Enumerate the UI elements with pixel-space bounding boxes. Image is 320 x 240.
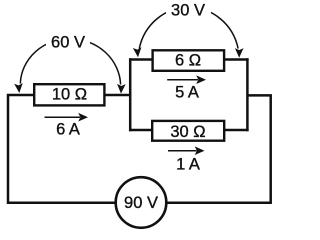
svg-text:6 Ω: 6 Ω bbox=[175, 52, 201, 70]
wire: bottom branch left segment bbox=[129, 129, 152, 132]
resistor R2 6 ohm bbox=[153, 50, 225, 71]
wire: bottom right segment + right vertical + tap to right bus bbox=[167, 95, 271, 202]
svg-text:5 A: 5 A bbox=[175, 84, 199, 102]
wire: top branch left segment bbox=[129, 58, 152, 61]
arrowhead 30V right bbox=[235, 48, 244, 58]
wire: left vertical + bottom left segment bbox=[8, 95, 115, 203]
current arrow 6 A bbox=[45, 116, 81, 118]
wire: 10-ohm resistor to left bus bbox=[106, 94, 132, 97]
svg-text:60 V: 60 V bbox=[51, 33, 85, 51]
current arrow 5 A bbox=[167, 79, 198, 81]
arrowhead 60V left bbox=[14, 83, 23, 93]
voltage arc 30 V bbox=[139, 7, 238, 48]
voltage arc 60 V bbox=[20, 39, 120, 85]
arrowhead 30V left bbox=[133, 47, 142, 57]
label 30 V bbox=[166, 0, 211, 18]
wire: right bus of parallel section bbox=[246, 58, 249, 131]
arrowhead 60V right bbox=[117, 84, 126, 94]
svg-text:30 V: 30 V bbox=[171, 2, 205, 20]
current arrow 1 A bbox=[168, 150, 197, 152]
resistor R3 30 ohm bbox=[152, 121, 224, 141]
svg-text:1 A: 1 A bbox=[176, 156, 200, 174]
svg-text:90 V: 90 V bbox=[124, 194, 158, 212]
resistor R1 10 ohm bbox=[34, 84, 104, 105]
label 60 V bbox=[46, 33, 90, 49]
wire: bottom branch right segment bbox=[225, 129, 249, 132]
svg-text:30 Ω: 30 Ω bbox=[170, 123, 205, 141]
svg-text:10 Ω: 10 Ω bbox=[52, 86, 87, 104]
source V1 90 V circle bbox=[116, 177, 167, 228]
wire: left bus of parallel section bbox=[129, 58, 132, 131]
wire: top branch right segment bbox=[225, 58, 249, 61]
svg-text:6 A: 6 A bbox=[56, 121, 80, 139]
